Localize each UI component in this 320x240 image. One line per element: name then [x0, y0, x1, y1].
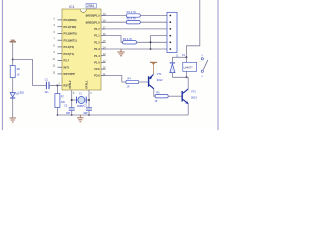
- ground for LED1: [9, 118, 16, 122]
- ground symbol main: [77, 115, 84, 122]
- crystal Y1: [76, 93, 87, 109]
- U1 right pin stubs: [101, 16, 106, 76]
- junction relay bottom: [185, 76, 187, 78]
- wire R2 to J1 pin2: [140, 21, 167, 23]
- LED1: [10, 92, 25, 118]
- svg-text:P3.4(T0): P3.4(T0): [64, 45, 75, 49]
- U1 right pin numbers: [103, 14, 106, 76]
- wire P1 row1 to R1: [101, 15, 126, 17]
- svg-text:P3.7: P3.7: [64, 59, 70, 63]
- svg-text:1K: 1K: [155, 100, 158, 103]
- svg-text:30P: 30P: [66, 112, 71, 115]
- svg-text:1K: 1K: [17, 73, 20, 76]
- ground symbol on row6: [117, 49, 124, 56]
- U1 right pin names: [86, 14, 101, 78]
- U1 left pin names: [64, 18, 77, 88]
- svg-text:9013: 9013: [191, 96, 197, 100]
- svg-text:P1.7: P1.7: [94, 27, 100, 31]
- ground rail bottom: [57, 114, 188, 116]
- junction rail at C2: [71, 114, 73, 116]
- U1 part number label 2051: [86, 3, 96, 8]
- junction at R3 row and tee: [150, 41, 152, 43]
- wire gnd row to J1 pin6: [101, 48, 167, 50]
- svg-text:P1.1: P1.1: [94, 34, 100, 38]
- wire row3 straight to J1 pin3: [101, 28, 167, 30]
- wire VT2 emitter down to rail: [187, 104, 189, 115]
- wire branch to C1: [13, 60, 46, 86]
- svg-text:LA4077: LA4077: [184, 65, 194, 69]
- U1 left pin numbers: [53, 18, 61, 85]
- switch S1 relay contact: [201, 55, 208, 78]
- svg-text:(MISO)P1.6: (MISO)P1.6: [86, 20, 101, 24]
- capacitor C3 30P: [83, 105, 92, 115]
- connector J1: [167, 12, 179, 57]
- resistor R4 base of VT1: [126, 78, 139, 89]
- svg-text:R2 4.7K: R2 4.7K: [127, 17, 137, 21]
- svg-text:(MOSI)P1.5: (MOSI)P1.5: [86, 14, 101, 18]
- resistor R5: [155, 91, 169, 103]
- sheet border left: [1, 0, 3, 130]
- svg-text:1K: 1K: [127, 85, 130, 88]
- wire R4 to VT1 base: [139, 81, 148, 83]
- junction VCC branch: [12, 59, 14, 61]
- svg-text:10u: 10u: [44, 91, 49, 94]
- wire C1 to RST pin: [50, 85, 63, 87]
- svg-text:VCC: VCC: [94, 67, 100, 71]
- power VCC bar above VT1: [150, 62, 157, 75]
- svg-text:P1.0: P1.0: [94, 61, 100, 65]
- junction rail at R7: [57, 114, 59, 116]
- resistor R3 4.7K: [123, 37, 137, 44]
- svg-text:XTAL1: XTAL1: [85, 80, 89, 89]
- wire VT2 collector up to relay: [187, 77, 189, 89]
- wire R1 to J1 pin1: [140, 15, 167, 17]
- junction XTAL2 node: [71, 99, 73, 101]
- svg-text:P1.2: P1.2: [94, 40, 100, 44]
- svg-text:P1.3: P1.3: [94, 47, 100, 51]
- diode VD1 flyback: [170, 57, 175, 77]
- IC U1 AT89C2051 body: [62, 9, 101, 90]
- junction RST node: [56, 85, 58, 87]
- svg-text:2051: 2051: [87, 4, 95, 8]
- junction rail at C3: [88, 114, 90, 116]
- capacitor C1 10u: [44, 78, 49, 94]
- svg-text:LED1: LED1: [18, 92, 25, 95]
- wire relay bottom rail: [172, 76, 188, 78]
- junction XTAL1 node: [88, 99, 90, 101]
- svg-text:30P: 30P: [83, 112, 88, 115]
- resistor R2 4.7K: [126, 17, 140, 24]
- svg-text:RST/VPP: RST/VPP: [64, 72, 76, 76]
- svg-text:INT1: INT1: [64, 65, 70, 69]
- wire row2 to R2: [101, 21, 126, 23]
- transistor VT1 9012: [148, 72, 163, 89]
- wire XTAL2 down: [71, 90, 73, 107]
- svg-text:P3.2(INT0): P3.2(INT0): [64, 32, 77, 36]
- wire XTAL1 down: [88, 90, 90, 107]
- wire row4 step down to R3: [101, 36, 123, 43]
- wire relay top rail: [172, 56, 186, 58]
- svg-text:VT2: VT2: [191, 90, 196, 94]
- junction relay top: [185, 56, 187, 58]
- svg-text:P3.6: P3.6: [94, 74, 100, 78]
- U1 left pin stubs: [58, 20, 63, 74]
- wire R5 to VT2 base: [168, 95, 181, 97]
- svg-text:P3.0(RXD): P3.0(RXD): [64, 18, 77, 22]
- resistor R6 1K LED resistor: [10, 60, 20, 93]
- wire row P3.6 to R4: [101, 76, 126, 83]
- capacitor C2 30P: [64, 105, 75, 115]
- svg-text:VT1: VT1: [157, 72, 162, 76]
- wire +V feed from top to relay: [186, 0, 199, 57]
- svg-text:P3.1(TXD): P3.1(TXD): [64, 25, 77, 29]
- svg-text:10K: 10K: [61, 101, 66, 104]
- svg-text:R3 4.7K: R3 4.7K: [123, 37, 133, 41]
- svg-text:P3.3(INT1): P3.3(INT1): [64, 38, 77, 42]
- wire tee to J1 pin4: [151, 36, 168, 49]
- svg-text:9012: 9012: [157, 78, 163, 82]
- svg-text:IC1: IC1: [69, 5, 74, 9]
- wire VT1 collector down to R5: [154, 89, 155, 96]
- transistor VT2 9013: [182, 89, 198, 104]
- svg-text:P1.4: P1.4: [94, 54, 100, 58]
- resistor R7 10K pulldown: [55, 86, 66, 116]
- sheet border right: [217, 0, 219, 130]
- power VCC symbol top left: [10, 40, 16, 60]
- wire R3 to J1 pin5: [137, 41, 168, 43]
- relay K1 coil: [182, 54, 197, 77]
- svg-text:P3.5(T1): P3.5(T1): [64, 52, 75, 56]
- svg-text:XTAL2: XTAL2: [68, 80, 72, 89]
- junction at gnd row and tee: [150, 48, 152, 50]
- svg-text:R1 4.7K: R1 4.7K: [127, 10, 137, 14]
- resistor R1 4.7K: [126, 10, 140, 17]
- crystal Y1 line: [72, 99, 89, 101]
